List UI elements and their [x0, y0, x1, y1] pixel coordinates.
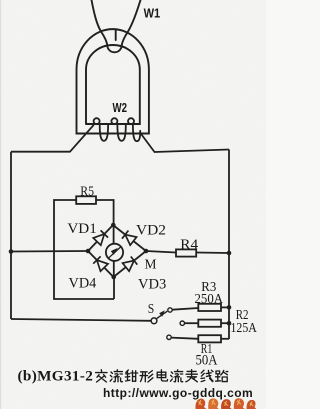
logo mark 2 [208, 398, 219, 409]
wire left node to left edge [11, 250, 88, 253]
wire right node to R4 [146, 251, 176, 253]
wire W1 conductor left line [92, 0, 122, 52]
wire R5 loop: top run [54, 200, 114, 299]
switch contact 2 [180, 321, 184, 325]
switch S common pole [151, 318, 157, 324]
node (bridge left) [86, 249, 91, 254]
coil W2 hanging loop 2 [117, 124, 125, 141]
clamp core outer outline [77, 29, 149, 133]
caption char lu [216, 370, 228, 381]
wire left vertical edge [10, 152, 12, 319]
switch arm arrowhead [159, 310, 165, 316]
coil W2 loop circle 2 [111, 118, 117, 124]
coil W2 loop circle 3 [128, 118, 134, 124]
caption char liu [171, 370, 183, 382]
logo orange marks [195, 398, 256, 409]
wire bridge bottom node down to R5 loop [113, 277, 115, 299]
switch contact 1 [168, 308, 172, 312]
diode VD1 [93, 234, 104, 245]
resistor R3 body [198, 304, 221, 311]
caption char jiao [96, 370, 107, 382]
switch arm [157, 311, 168, 318]
wire top-left horizontal [11, 151, 70, 153]
switch contact 3 [167, 335, 171, 339]
wire arm L-T [88, 225, 113, 251]
wire arm B-R [114, 251, 147, 277]
logo mark 3 [221, 399, 232, 409]
diode VD4 [97, 260, 108, 271]
wire T to meter [113, 225, 115, 244]
wire R1 to right edge [221, 338, 229, 340]
wire contact3 to R1 [171, 338, 198, 339]
wire right vertical edge [228, 150, 230, 340]
resistor R2 body [198, 320, 221, 327]
caption char dian [157, 370, 167, 381]
caption char biao [186, 370, 197, 382]
clamp jaw split line [115, 29, 117, 40]
wire R3 to right edge [221, 306, 229, 308]
wire W1 conductor right line [122, 0, 141, 45]
caption CJK characters [96, 370, 228, 382]
caption char xian [201, 370, 213, 381]
caption char xing [140, 371, 153, 382]
diode VD3 [123, 261, 134, 272]
node (bridge right) [144, 249, 149, 254]
junction R3 right [227, 305, 232, 310]
caption char liu [110, 370, 122, 382]
resistor R5 body [76, 196, 96, 204]
node A (bridge top) [111, 223, 116, 228]
wire R2 to right edge [221, 322, 229, 324]
node (bridge bottom) [111, 275, 116, 280]
wire coil right lead [140, 133, 155, 153]
resistor R1 body [198, 335, 221, 342]
wire coil left lead [70, 125, 93, 151]
bridge arms [88, 225, 146, 277]
wire contact2 to R2 [185, 322, 199, 324]
logo mark 5 [247, 400, 257, 409]
logo mark 4 [234, 398, 245, 409]
meter M [106, 244, 123, 261]
wire R4 to right edge [196, 252, 229, 255]
logo mark 1 [195, 399, 206, 409]
wire contact1 to R3 [172, 308, 198, 310]
clamp core inner outline [86, 45, 140, 124]
diode VD2 [125, 235, 136, 246]
junction R2 right [227, 321, 232, 326]
coil W2 loop circle 1 [94, 118, 100, 124]
resistor R4 body [176, 249, 196, 256]
logo highlights [198, 400, 253, 406]
wire top-right horizontal [155, 150, 230, 153]
junction R4 right [227, 251, 232, 256]
coil W2 hanging loop 3 [133, 125, 140, 142]
wire bottom horizontal to switch [11, 319, 151, 321]
junction left edge [9, 249, 14, 254]
coil W2 hanging loop 1 [100, 124, 108, 141]
wire arm T-R [113, 225, 146, 251]
wire arm L-B [88, 251, 114, 277]
wire meter to B [113, 261, 115, 277]
caption char qian [125, 370, 137, 381]
